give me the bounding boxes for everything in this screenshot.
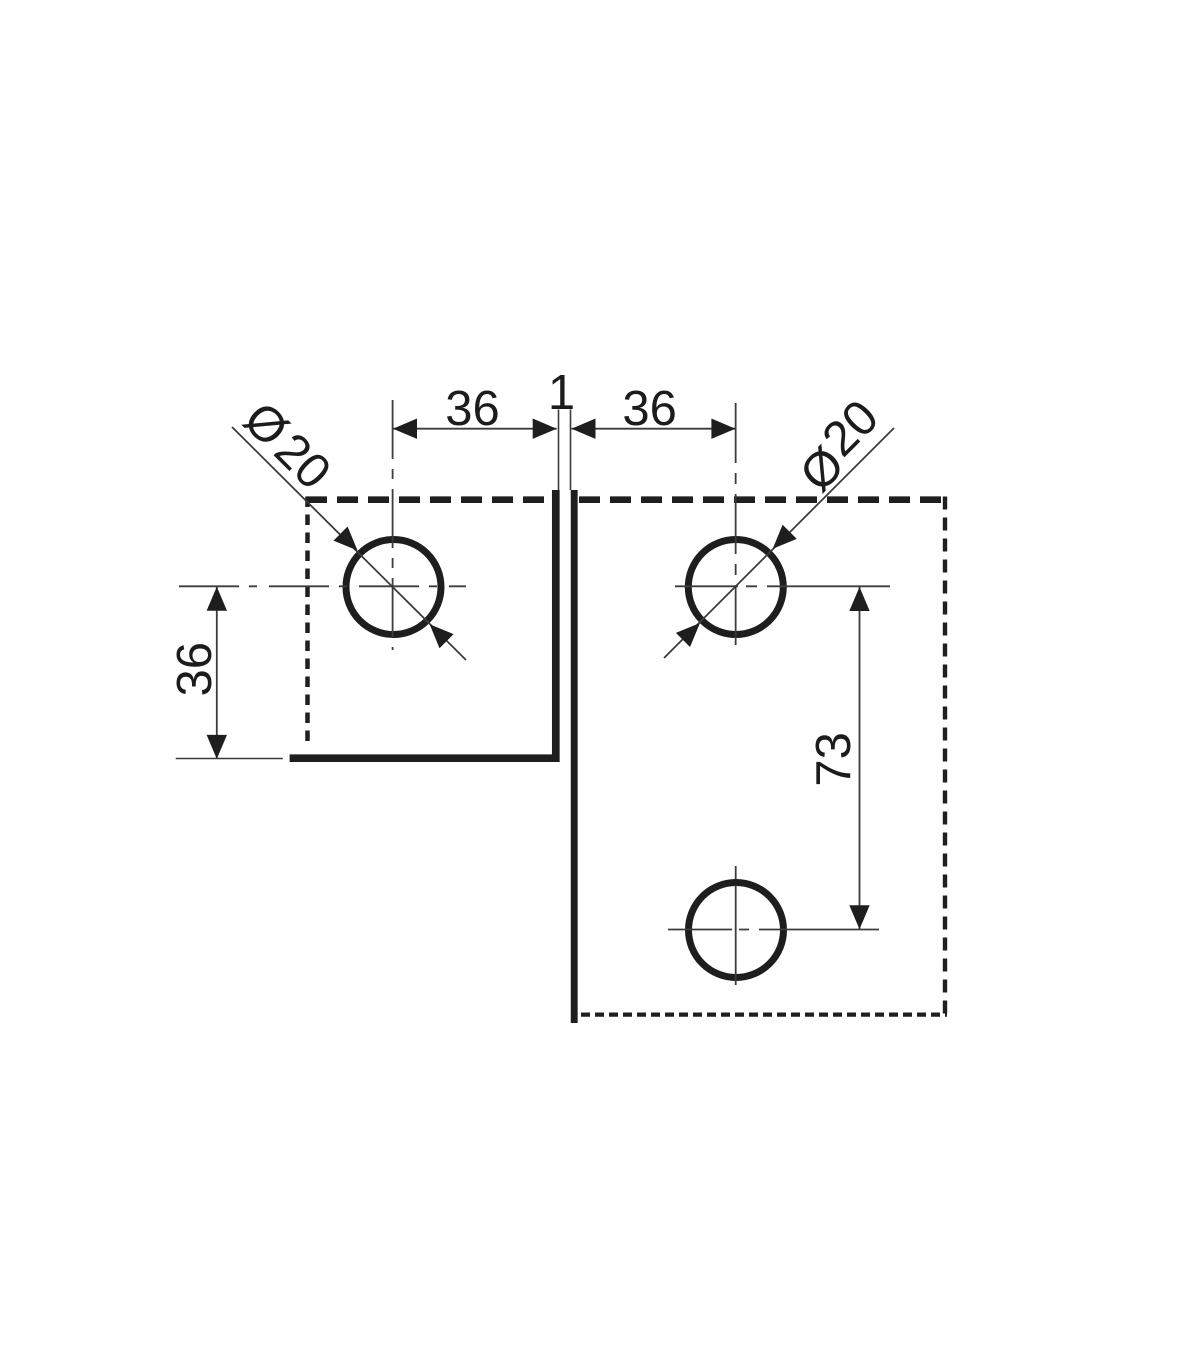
right flange dashed outline: top edge bbox=[579, 496, 947, 503]
hole H2 circle bbox=[688, 540, 783, 635]
hole H3 circle bbox=[689, 883, 784, 978]
dimension D2 (36 top-right): dimension line bbox=[572, 428, 736, 430]
hole H2 horizontal centerline bbox=[675, 585, 890, 587]
leader L2 diagonal line (hole H2) bbox=[664, 428, 894, 658]
dimension T1 right extension line bbox=[570, 410, 572, 491]
bent sheet profile: left leg thick L bbox=[290, 490, 556, 758]
dimension T1 (1 thickness): left extension line bbox=[558, 410, 560, 491]
hole H1 vertical centerline bbox=[392, 400, 394, 650]
dimension D4 top arrowhead bbox=[849, 587, 869, 611]
hole H3 horizontal centerline bbox=[668, 929, 879, 931]
leader L1 lower arrowhead bbox=[430, 624, 454, 648]
leader L2 upper arrowhead bbox=[773, 525, 797, 549]
dimension D3 bottom arrowhead bbox=[207, 735, 227, 759]
dimension D3 top arrowhead bbox=[207, 587, 227, 611]
dimension D3 bottom extension line bbox=[176, 758, 283, 760]
hole H3 vertical centerline bbox=[735, 866, 737, 989]
svg-text:36: 36 bbox=[168, 642, 222, 697]
dimension D1 (36 top-left): dimension line bbox=[393, 428, 557, 430]
dimension D3 (36 left vertical): dimension line bbox=[216, 587, 218, 759]
hole H1 horizontal centerline bbox=[179, 585, 466, 587]
hole H1 circle bbox=[346, 540, 441, 635]
dimension D4 bottom arrowhead bbox=[849, 905, 869, 929]
hole H2 vertical centerline bbox=[735, 403, 737, 652]
dimension D2 right arrowhead bbox=[711, 419, 735, 439]
svg-text:36: 36 bbox=[445, 382, 500, 436]
leader L1 diagonal line (hole H1) bbox=[232, 427, 466, 660]
right flange dashed outline: right edge bbox=[943, 497, 947, 1017]
svg-text:1: 1 bbox=[548, 366, 575, 420]
dimension D4 (73 right vertical): dimension line bbox=[859, 587, 861, 929]
dimension D2 left arrowhead bbox=[572, 419, 596, 439]
dimension D1 right arrowhead bbox=[533, 419, 557, 439]
left flange dashed outline: left edge bbox=[305, 497, 310, 745]
bent sheet profile: right leg thick line bbox=[571, 490, 578, 1023]
leader L1 upper arrowhead bbox=[334, 527, 358, 551]
svg-text:36: 36 bbox=[622, 382, 677, 436]
left flange dashed outline: top edge bbox=[306, 496, 552, 503]
right flange dashed outline: bottom edge bbox=[581, 1012, 947, 1016]
leader L2 lower arrowhead bbox=[676, 623, 700, 647]
svg-text:73: 73 bbox=[807, 732, 861, 787]
dimension D1 left arrowhead bbox=[393, 419, 417, 439]
